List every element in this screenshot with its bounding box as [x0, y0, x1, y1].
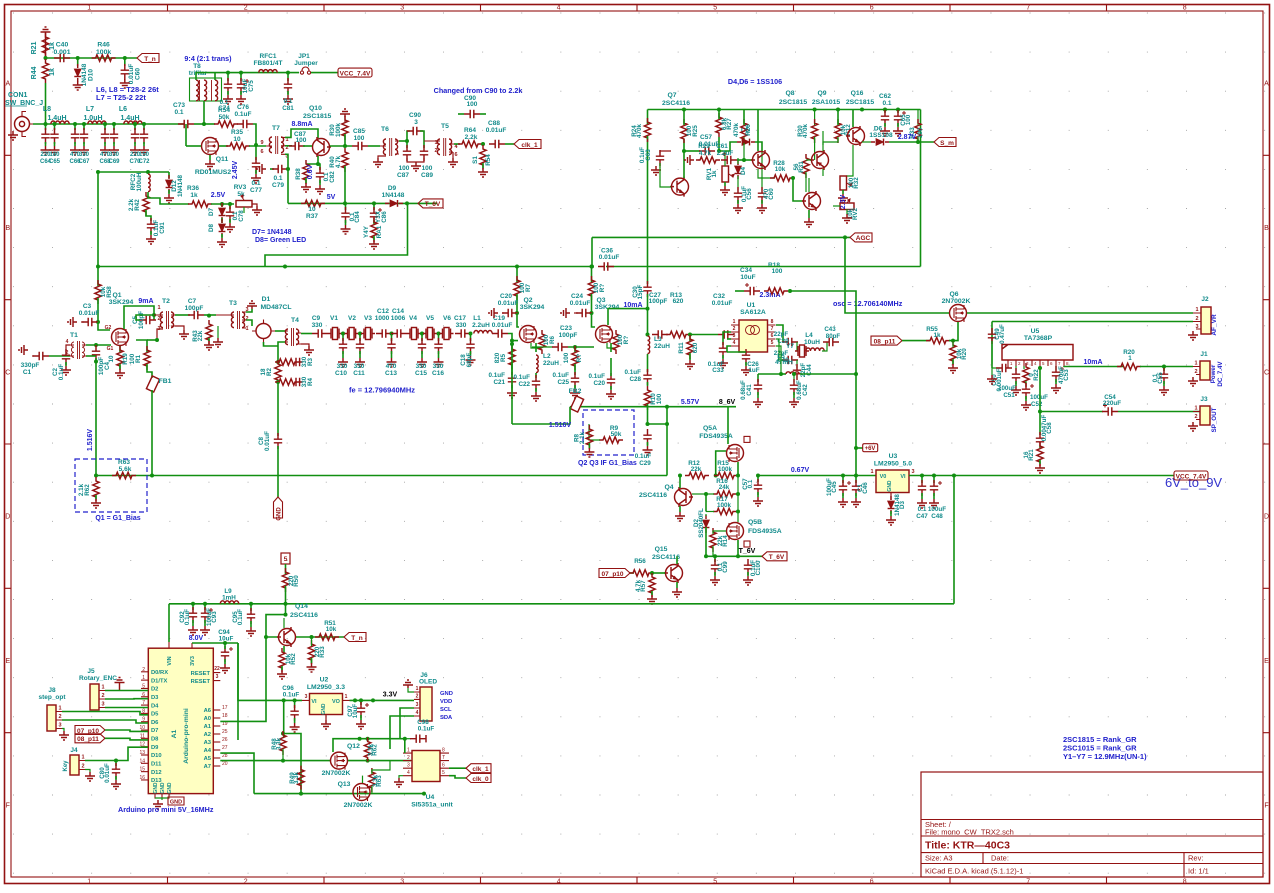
ground R11: [685, 360, 695, 369]
svg-text:1.516V: 1.516V: [549, 422, 572, 429]
svg-text:D11: D11: [151, 762, 162, 768]
mosfet Q12 2N7002K: [331, 752, 348, 769]
trimmer R32: [840, 176, 847, 190]
wire C73 to T8 bottom: [194, 123, 207, 125]
svg-text:0.1uF: 0.1uF: [635, 453, 652, 460]
svg-text:FB801/4T: FB801/4T: [254, 60, 283, 67]
svg-text:7: 7: [1026, 879, 1030, 886]
svg-text:VDD: VDD: [440, 699, 452, 705]
svg-text:T_6V: T_6V: [425, 201, 441, 208]
svg-text:Q5B: Q5B: [748, 519, 762, 526]
mosfet Q5A FDS4935A: [727, 445, 744, 462]
svg-text:0.1uF: 0.1uF: [589, 373, 606, 380]
capacitor C13: [391, 334, 393, 342]
svg-text:22pF: 22pF: [774, 331, 789, 338]
svg-text:C86: C86: [381, 211, 388, 223]
svg-text:100: 100: [129, 353, 136, 364]
wire attenuator top bus: [46, 57, 138, 59]
wire 3V3 node: [192, 642, 238, 644]
wire Q10 base node to C85: [330, 145, 352, 147]
svg-text:15pF: 15pF: [637, 285, 644, 300]
ground J8: [62, 729, 64, 732]
wire top bus: [648, 109, 921, 111]
svg-text:10mA: 10mA: [1083, 359, 1102, 366]
svg-text:C81: C81: [282, 105, 294, 112]
junction: [150, 474, 154, 478]
svg-text:C62: C62: [879, 93, 891, 100]
global label clk_0: [466, 774, 491, 783]
svg-text:100uF: 100uF: [998, 385, 1016, 392]
svg-text:R?: R?: [599, 284, 606, 293]
junction: [469, 332, 473, 336]
svg-text:7: 7: [142, 700, 145, 706]
svg-text:R14: R14: [722, 535, 729, 547]
svg-text:4: 4: [66, 339, 69, 345]
junction: [481, 142, 485, 146]
svg-text:R64: R64: [464, 127, 476, 134]
junction: [742, 158, 746, 162]
resistor R41: [371, 218, 377, 242]
capacitor C94: [221, 646, 233, 662]
svg-text:2SC1815: 2SC1815: [846, 99, 875, 106]
junction: [366, 759, 370, 763]
capacitor C58: [1036, 432, 1044, 448]
junction: [682, 108, 686, 112]
svg-text:RV3: RV3: [234, 184, 247, 191]
connector J1 Power: [1200, 361, 1210, 380]
svg-text:100uF: 100uF: [928, 506, 946, 513]
svg-text:7: 7: [442, 755, 445, 761]
svg-text:C87: C87: [397, 172, 409, 179]
diode D6: [862, 141, 871, 143]
svg-text:4: 4: [416, 710, 419, 716]
wire Q5B source to T_6V node: [737, 540, 739, 556]
wire T3 to D1: [246, 309, 252, 312]
svg-text:1: 1: [245, 326, 248, 332]
resistor R28: [770, 175, 794, 181]
svg-text:Q1 = G1_Bias: Q1 = G1_Bias: [95, 515, 140, 522]
svg-text:C72: C72: [138, 159, 150, 165]
svg-text:68pF: 68pF: [466, 353, 473, 368]
svg-text:Arduino pro mini 5V_16MHz: Arduino pro mini 5V_16MHz: [118, 805, 214, 814]
svg-text:C82: C82: [329, 171, 336, 183]
capacitor C91: [147, 218, 155, 234]
svg-text:J5: J5: [87, 668, 95, 675]
resistor R5: [511, 341, 513, 352]
capacitor C92: [192, 604, 194, 610]
junction: [226, 71, 230, 75]
svg-text:0.47uF: 0.47uF: [999, 324, 1006, 344]
svg-text:1mH: 1mH: [222, 595, 236, 602]
wire Q14 out: [296, 636, 344, 638]
inductor L4: [806, 348, 824, 351]
resistor R27: [718, 137, 720, 151]
global label T_n: [137, 54, 159, 63]
capacitor C17: [455, 329, 471, 337]
svg-text:0.1uF: 0.1uF: [639, 147, 646, 163]
capacitor C64: [45, 124, 47, 130]
svg-text:100k: 100k: [96, 49, 111, 56]
junction: [220, 202, 224, 206]
svg-text:C7: C7: [188, 298, 197, 305]
capacitor C1: [19, 345, 28, 355]
svg-text:T_6V: T_6V: [739, 548, 756, 555]
svg-text:5.57V: 5.57V: [681, 399, 700, 406]
svg-text:J8: J8: [48, 687, 56, 694]
svg-text:0.01uF: 0.01uF: [599, 254, 620, 261]
global label T_n 2: [344, 633, 366, 642]
svg-text:100: 100: [656, 393, 663, 404]
capacitor C87: [285, 145, 292, 147]
resistor R44: [42, 59, 48, 83]
svg-text:C63: C63: [645, 149, 652, 161]
capacitor C65: [54, 124, 56, 130]
junction: [366, 737, 370, 741]
svg-text:100uF: 100uF: [1030, 394, 1048, 401]
svg-text:5: 5: [284, 556, 288, 563]
resistor R63: [112, 472, 136, 478]
wire Q9 collector down: [822, 169, 824, 176]
capacitor C82: [318, 164, 320, 170]
capacitor C68: [104, 124, 106, 130]
junction: [788, 289, 792, 293]
junction: [112, 122, 116, 126]
capacitor C85: [352, 142, 368, 150]
capacitor C20: [516, 294, 518, 313]
svg-text:A5: A5: [204, 756, 212, 762]
wire Q4 collector: [679, 476, 681, 489]
wire RV3 wiper down: [243, 207, 245, 213]
junction: [282, 698, 286, 702]
svg-text:J2: J2: [1201, 296, 1209, 303]
svg-text:T3: T3: [229, 300, 237, 307]
svg-text:A1: A1: [171, 729, 178, 738]
wire to Q2 G2: [517, 313, 519, 327]
title block: [921, 772, 1263, 877]
capacitor C76: [237, 120, 253, 128]
svg-text:8.8mA: 8.8mA: [291, 121, 312, 128]
wire Q12 top to 738 rail: [333, 739, 405, 752]
svg-text:trifilar: trifilar: [189, 70, 208, 77]
svg-text:T6: T6: [381, 126, 389, 133]
svg-text:10: 10: [233, 136, 241, 143]
capacitor C42: [793, 374, 795, 382]
svg-text:T7: T7: [272, 125, 280, 132]
capacitor C53: [1055, 366, 1057, 370]
wire 5V rail: [288, 202, 437, 204]
svg-text:D5: D5: [151, 712, 159, 718]
svg-text:100: 100: [772, 268, 783, 275]
trimmer RV1: [722, 166, 729, 182]
dashed box Q1 G1_Bias: [75, 459, 147, 512]
svg-text:3: 3: [216, 674, 219, 680]
svg-text:U2: U2: [320, 677, 329, 684]
global label S_m: [934, 138, 956, 147]
svg-text:JP1: JP1: [298, 53, 310, 60]
transistor Q16 2SC1815: [848, 128, 865, 145]
global label AGC: [850, 233, 872, 242]
trimmer RV2: [840, 203, 854, 210]
resistor R56: [629, 570, 653, 576]
svg-text:LM2950_5.0: LM2950_5.0: [874, 461, 912, 468]
svg-text:0.1: 0.1: [174, 109, 183, 116]
svg-text:620: 620: [673, 298, 684, 305]
svg-text:R25: R25: [692, 125, 699, 137]
svg-text:3.3k: 3.3k: [293, 771, 300, 784]
svg-text:2: 2: [245, 316, 248, 322]
junction: [223, 641, 227, 645]
svg-text:B: B: [5, 225, 10, 232]
wire Q6 drain to J2: [967, 312, 1193, 314]
svg-text:3: 3: [1195, 324, 1198, 330]
capacitor C78: [229, 204, 231, 209]
svg-text:C19: C19: [493, 315, 505, 322]
connector J2 AF_VR: [1201, 307, 1211, 334]
resistor R25: [681, 119, 687, 143]
junction: [646, 422, 650, 426]
svg-text:470k: 470k: [636, 124, 643, 139]
resistor R9: [599, 437, 623, 443]
svg-text:GND: GND: [440, 691, 453, 697]
transistor Q7 2SC4116: [672, 178, 689, 195]
junction: [713, 554, 717, 558]
wire Q14 base branch down to A1: [220, 637, 266, 721]
svg-text:2.87V: 2.87V: [898, 134, 917, 141]
resistor R46: [92, 55, 116, 61]
svg-text:L4: L4: [805, 332, 813, 339]
mosfet Q11 RD01MUS2: [202, 138, 219, 155]
svg-text:R4: R4: [307, 377, 314, 386]
svg-text:2.5V: 2.5V: [840, 194, 847, 209]
junction: [310, 635, 314, 639]
svg-text:R50: R50: [293, 575, 300, 587]
transistor Q10 2SC1815: [313, 139, 330, 156]
svg-text:A4: A4: [204, 748, 212, 754]
resistor R31b: [793, 177, 806, 179]
junction: [371, 698, 375, 702]
capacitor C47: [921, 476, 923, 484]
svg-text:100: 100: [296, 137, 307, 144]
svg-text:4: 4: [733, 340, 736, 346]
svg-text:470k: 470k: [733, 123, 740, 138]
resistor R64: [454, 143, 460, 145]
global label T_6V: [418, 199, 443, 208]
junction divider: [276, 360, 280, 364]
svg-text:D9: D9: [151, 745, 159, 751]
svg-text:F: F: [1264, 802, 1268, 809]
svg-text:VCC_7.4V: VCC_7.4V: [340, 70, 371, 77]
wire to R54: [207, 123, 215, 125]
svg-text:330: 330: [337, 363, 348, 370]
wire pin to R20b: [1064, 365, 1124, 368]
resistor R21b: [1039, 445, 1041, 448]
svg-text:3: 3: [414, 119, 418, 126]
svg-text:Q1: Q1: [112, 292, 121, 299]
svg-text:0.1uF: 0.1uF: [625, 369, 642, 376]
svg-text:25: 25: [222, 729, 228, 735]
svg-text:0.01uF: 0.01uF: [492, 322, 513, 329]
junction: [341, 332, 345, 336]
svg-text:10uF: 10uF: [219, 636, 234, 643]
svg-text:L7: L7: [86, 106, 94, 113]
capacitor C73: [178, 120, 194, 128]
svg-text:C75: C75: [248, 80, 255, 92]
svg-text:0.67V: 0.67V: [791, 467, 810, 474]
junction: [646, 333, 650, 337]
svg-text:LM2950_3.3: LM2950_3.3: [307, 684, 345, 691]
ground: [8, 131, 18, 140]
svg-text:3: 3: [305, 694, 308, 700]
capacitor C34: [735, 290, 744, 292]
svg-text:Rotary_ENC: Rotary_ENC: [79, 675, 117, 682]
svg-text:330: 330: [433, 363, 444, 370]
svg-text:C20: C20: [593, 380, 605, 387]
svg-text:11: 11: [140, 733, 145, 739]
svg-text:17: 17: [222, 705, 228, 711]
svg-text:C24: C24: [571, 293, 583, 300]
svg-text:150: 150: [139, 152, 150, 158]
svg-text:C25: C25: [557, 379, 569, 386]
A1 RESET pins: [213, 673, 220, 681]
inductor L1: [474, 330, 492, 333]
capacitor C32: [718, 330, 734, 338]
resistor R22: [1023, 366, 1025, 369]
svg-text:VI: VI: [311, 699, 317, 705]
wire R42 to C91: [146, 210, 151, 221]
svg-text:A: A: [5, 81, 10, 88]
svg-text:U1: U1: [747, 302, 756, 309]
diode D7: [221, 204, 223, 207]
junction: [114, 759, 118, 763]
svg-text:14: 14: [139, 758, 145, 764]
wire 10mA node down to IF out: [647, 309, 649, 335]
svg-text:C57: C57: [700, 134, 712, 141]
svg-text:Y7: Y7: [786, 343, 794, 350]
svg-text:R21: R21: [31, 41, 38, 54]
capacitor C2: [66, 345, 70, 352]
global label T_6V: [762, 552, 787, 561]
svg-text:1N4148: 1N4148: [382, 192, 405, 199]
resistor R3: [275, 359, 299, 365]
ground Q13b emitter: [808, 210, 810, 218]
svg-text:C53: C53: [1063, 369, 1070, 381]
resistor R26: [743, 137, 745, 160]
junction: [249, 602, 253, 606]
wire D1 bottom: [264, 342, 279, 346]
svg-text:VI: VI: [900, 474, 906, 480]
svg-text:D: D: [5, 514, 10, 521]
svg-text:R22: R22: [1033, 369, 1040, 381]
svg-text:6: 6: [870, 879, 874, 886]
svg-text:2N7002K: 2N7002K: [344, 802, 373, 809]
wire left vertical bus x98: [97, 172, 99, 286]
resistor R20a: [950, 341, 956, 365]
junction: [191, 602, 195, 606]
vertical from product detector: [647, 139, 649, 237]
junction: [96, 265, 100, 269]
capacitor C81: [287, 73, 289, 81]
crystal Y7: [796, 342, 798, 351]
junction: [281, 759, 285, 763]
wire U3 out right: [909, 475, 1174, 477]
svg-text:9:4 (2:1 trans): 9:4 (2:1 trans): [184, 54, 232, 63]
wire to U4 pin4 gnd: [399, 776, 403, 778]
svg-text:R32: R32: [853, 177, 860, 189]
junction: [736, 474, 740, 478]
capacitor C57b: [738, 475, 758, 477]
svg-text:0.1: 0.1: [273, 175, 282, 182]
svg-text:0.1uF: 0.1uF: [58, 364, 65, 381]
ground T6 left: [378, 156, 386, 158]
wire R20b to J1: [1140, 366, 1193, 368]
svg-text:L3: L3: [654, 336, 662, 343]
capacitor C4: [92, 345, 100, 361]
svg-text:0.1uF: 0.1uF: [184, 609, 191, 625]
svg-text:6: 6: [454, 152, 457, 158]
svg-text:1k: 1k: [933, 332, 941, 339]
svg-text:330: 330: [109, 152, 120, 158]
svg-text:RD01MUS2: RD01MUS2: [195, 169, 231, 176]
wire T7 pin3 down: [285, 154, 288, 203]
resistor R54: [214, 121, 238, 127]
junction T2 out: [155, 338, 159, 342]
svg-text:S_m: S_m: [940, 140, 954, 147]
svg-text:A1: A1: [204, 724, 212, 730]
IC U2 LM2950_3.3: [310, 694, 343, 715]
wire T6 to C90 bypass: [399, 140, 407, 142]
svg-text:SA612A: SA612A: [740, 309, 766, 316]
svg-text:0.1uF: 0.1uF: [489, 372, 506, 379]
svg-text:Size: A3: Size: A3: [925, 854, 953, 863]
junction: [843, 235, 847, 239]
wire FB1 down to bias bus: [151, 390, 153, 476]
svg-text:7: 7: [1026, 5, 1030, 12]
wire U2 out to J6: [350, 699, 415, 701]
svg-text:820: 820: [494, 352, 501, 363]
svg-text:R29: R29: [698, 143, 710, 150]
svg-text:10: 10: [108, 355, 115, 363]
resistor R49: [298, 766, 304, 790]
svg-text:SCL: SCL: [440, 707, 452, 713]
svg-text:100k: 100k: [335, 123, 342, 138]
svg-text:Q5A: Q5A: [703, 425, 717, 432]
transistor Q8 2SC1815: [753, 152, 770, 169]
power label +6V: [856, 447, 863, 449]
svg-text:2SC1815: 2SC1815: [303, 113, 332, 120]
wire Q15 collector: [676, 556, 678, 564]
inductor RFC2: [148, 174, 150, 192]
inductor L6: [124, 121, 142, 124]
resistor R7: [514, 276, 520, 300]
svg-text:4.7k: 4.7k: [699, 150, 712, 157]
svg-text:180: 180: [49, 152, 60, 158]
capacitor C65: [896, 108, 900, 112]
wire Q13 gate stub: [362, 776, 364, 783]
transistor Q13b 2SC1815: [804, 193, 821, 210]
resistor R21: [42, 33, 48, 57]
svg-text:470: 470: [386, 363, 397, 370]
svg-text:3SK294: 3SK294: [520, 304, 545, 311]
svg-text:A: A: [1264, 81, 1269, 88]
junction: [284, 602, 288, 606]
resistor R50: [282, 568, 288, 592]
junction: [228, 202, 232, 206]
svg-text:C34: C34: [740, 267, 752, 274]
svg-text:3: 3: [911, 469, 914, 475]
resistor R43: [206, 320, 212, 344]
capacitor C14: [391, 329, 407, 337]
resistor R13: [666, 331, 690, 337]
